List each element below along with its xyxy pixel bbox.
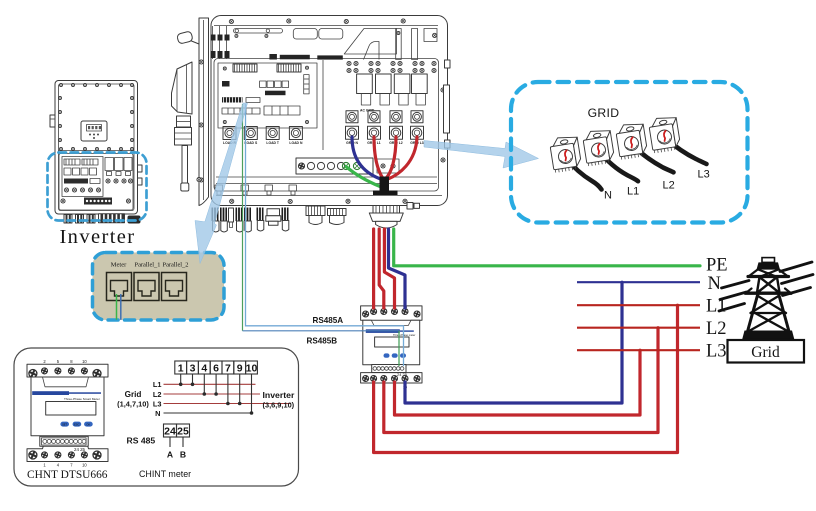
- main unit: LOAD terminal row: [223, 127, 303, 146]
- main unit: top connector strips: [269, 54, 342, 60]
- svg-text:6: 6: [213, 362, 219, 374]
- RS485 pin boxes 24 25: [164, 424, 190, 447]
- svg-text:Inverter: Inverter: [263, 390, 295, 400]
- label Parallel_1: [135, 262, 161, 269]
- tower arm 2: [746, 292, 792, 295]
- svg-text:L1: L1: [627, 186, 639, 198]
- grid cable L1: [599, 152, 638, 182]
- meter detail callout box: [14, 348, 299, 486]
- inverter front view: bottom connector nubs: [64, 214, 141, 224]
- bottom accessories: bracket: [229, 208, 234, 228]
- svg-text:L2: L2: [706, 319, 727, 339]
- power lines left: [719, 281, 749, 312]
- label Meter: [111, 262, 128, 269]
- label N: [708, 274, 721, 294]
- grid cable L2: [633, 146, 674, 173]
- bottom accessories: PV connector pair A: [212, 208, 228, 233]
- inverter front view: bay bottom ribbed strip: [61, 198, 131, 205]
- inverter front view: left hinge tab: [50, 115, 55, 127]
- energy meter DTSU666 (wiring view): [361, 305, 422, 389]
- bottom accessories: PV connector pair B: [236, 208, 252, 233]
- label GRID: [588, 106, 620, 120]
- wire red internal 2: [386, 137, 396, 179]
- tower base: [742, 331, 795, 341]
- label L2 (grid box): [663, 180, 675, 192]
- bottom accessories: main cable gland: [369, 206, 403, 229]
- svg-text:3: 3: [190, 362, 196, 374]
- svg-text:(1,4,7,10): (1,4,7,10): [117, 400, 149, 409]
- inverter side view: wall panel: [199, 18, 209, 206]
- label Parallel_2: [163, 262, 189, 269]
- svg-text:LOAD T: LOAD T: [266, 141, 280, 145]
- bus N: [577, 281, 700, 283]
- label CHINT meter: [139, 469, 191, 479]
- label RS485A: [313, 316, 344, 325]
- svg-text:LOAD S: LOAD S: [244, 141, 258, 145]
- transmission tower: [719, 258, 813, 340]
- label Inverter: [59, 226, 135, 248]
- RS485 wire B overlay across meter: [362, 331, 400, 366]
- grid terminal block L1: [582, 128, 615, 166]
- svg-text:L3: L3: [698, 169, 710, 181]
- GRID callout dashed border: [511, 82, 748, 223]
- label L1: [706, 297, 727, 317]
- inverter side view: wifi antenna: [177, 31, 199, 44]
- label RS 485: [127, 436, 156, 446]
- svg-text:OK: OK: [86, 423, 90, 427]
- svg-text:Meter: Meter: [111, 262, 128, 269]
- label CHNT DTSU666: [27, 469, 108, 481]
- svg-text:24: 24: [164, 425, 176, 437]
- svg-text:CHNT DTSU666: CHNT DTSU666: [27, 469, 108, 481]
- main unit: outer case: [211, 16, 448, 206]
- label L1 (grid box): [627, 186, 639, 198]
- CHNT meter drawing: bottom flange: [27, 440, 108, 467]
- svg-text:PE: PE: [706, 256, 728, 276]
- main unit: top duct: [344, 29, 396, 60]
- svg-text:Grid: Grid: [125, 390, 142, 399]
- main unit: right screw clusters: [347, 61, 436, 72]
- wire red internal 1: [374, 137, 383, 179]
- RJ45 port Parallel_2: [162, 273, 187, 301]
- pin box row 1,3,4,6,7,9,10: [175, 361, 258, 374]
- meter port wire blue: [120, 294, 122, 320]
- svg-text:LOAD N: LOAD N: [289, 141, 303, 145]
- svg-text:RS 485: RS 485: [127, 436, 156, 446]
- power lines right: [780, 262, 813, 296]
- tower mid section: [757, 277, 780, 293]
- meter buttons: [384, 353, 390, 357]
- svg-text:4: 4: [201, 362, 207, 374]
- main unit: top vent bar: [234, 29, 283, 38]
- main unit: top slot plates: [293, 29, 343, 40]
- wire meter bottom 9 to L3 bus: [395, 350, 641, 415]
- label L3 (grid box): [698, 169, 710, 181]
- svg-text:N: N: [155, 409, 160, 418]
- inverter side view: DC switch block: [175, 116, 192, 145]
- grid terminal block L2: [615, 122, 648, 160]
- pin diagram line L3: [164, 374, 291, 405]
- grid terminal block N: [549, 135, 582, 173]
- label N (grid box): [604, 190, 612, 202]
- inverter front view: case: [55, 81, 138, 215]
- label L3: [706, 342, 727, 362]
- inverter front view: screws top row: [60, 84, 134, 87]
- CHNT meter drawing: top flange: [27, 359, 108, 387]
- svg-text:Inverter: Inverter: [59, 226, 135, 248]
- tower arm 1: [748, 275, 789, 278]
- wire PE green (gland to PE bus): [394, 229, 700, 266]
- wire meter bottom 10 to N bus: [405, 282, 622, 403]
- svg-text:10: 10: [82, 359, 87, 364]
- wire green internal: [346, 167, 380, 187]
- meter port wire green: [116, 294, 118, 320]
- meter bottom flange: [361, 373, 422, 383]
- wire blue internal: [352, 137, 381, 179]
- labels A B: [167, 450, 186, 460]
- svg-text:Grid: Grid: [751, 344, 780, 361]
- pin diagram line N: [164, 374, 254, 415]
- svg-text:GRID: GRID: [588, 106, 620, 120]
- main unit: case screws: [197, 19, 445, 204]
- pin diagram line L1: [164, 374, 256, 386]
- svg-text:(3,6,9,10): (3,6,9,10): [263, 400, 295, 409]
- svg-text:RS485B: RS485B: [307, 336, 338, 345]
- bus L2: [577, 327, 700, 329]
- dashed highlight around inverter wiring bay: [48, 153, 147, 221]
- comm ports callout box: [93, 253, 225, 321]
- svg-text:A: A: [167, 450, 173, 460]
- inverter front view: bay left board: [62, 157, 103, 197]
- bottom accessories: PV connector pair C: [257, 208, 289, 232]
- bus L3: [577, 349, 700, 351]
- meter comm terminal strip: [372, 365, 406, 373]
- grid name box: [728, 340, 805, 363]
- bottom accessories: small glands pair: [306, 206, 346, 225]
- meter corner screws bottom: [362, 375, 370, 383]
- bottom accessories: right mini connector: [407, 203, 420, 210]
- svg-text:L2: L2: [153, 390, 162, 399]
- svg-text:N: N: [604, 190, 612, 202]
- svg-text:10: 10: [82, 462, 87, 467]
- main unit: relay blocks: [357, 74, 428, 113]
- svg-text:24 25: 24 25: [74, 447, 86, 452]
- wire L2 red (gland to meter top terminal 4): [379, 229, 384, 308]
- wire meter bottom 3 to L1 bus: [374, 305, 678, 452]
- main unit: grid terminal row 1: [346, 111, 423, 123]
- main unit: top hinge columns: [211, 26, 230, 59]
- callout arrow to comm ports box: [195, 103, 248, 264]
- svg-text:25: 25: [177, 425, 189, 437]
- svg-text:Three-Phase Smart Meter: Three-Phase Smart Meter: [64, 397, 100, 401]
- label Inverter (3,6,9,10): [263, 390, 295, 410]
- svg-text:CHINT meter: CHINT meter: [139, 469, 191, 479]
- svg-text:Three-Phase meter: Three-Phase meter: [393, 333, 415, 337]
- main unit: small panel right of strip: [377, 159, 399, 173]
- inverter side view: mount bracket: [172, 62, 193, 114]
- label RS485B: [307, 336, 338, 345]
- RS485 wire A overlay across meter: [362, 326, 404, 366]
- RS485 thin wire B (green from comm board): [243, 104, 400, 367]
- bottom accessories: MC4 connector: [266, 209, 281, 226]
- svg-text:7: 7: [225, 362, 231, 374]
- main unit: ground terminal strip: [296, 158, 373, 174]
- CHNT meter drawing: comm strip: [40, 436, 88, 451]
- inverter front view: bay right terminal row: [106, 179, 133, 183]
- inverter front view: display panel: [81, 121, 107, 141]
- wire L3 red (gland to meter top terminal 7): [384, 229, 394, 308]
- inverter front view: divider screw row: [59, 148, 135, 151]
- svg-text:L3: L3: [706, 342, 727, 362]
- svg-text:L1: L1: [153, 380, 162, 389]
- main unit: vertical divider: [322, 60, 324, 150]
- meter terminals bottom: [370, 375, 378, 383]
- pin diagram phase labels: [153, 380, 162, 418]
- main unit: grid terminal row 2 (wire sources): [346, 126, 424, 145]
- RJ45 port Meter: [107, 273, 132, 301]
- callout arrow to GRID box: [424, 141, 539, 169]
- meter blue fascia bar: [366, 329, 400, 333]
- inverter front view: right tabs: [138, 165, 143, 185]
- pin diagram line L2: [164, 374, 261, 396]
- svg-text:L2: L2: [663, 180, 675, 192]
- inverter front view: wiring bay frame: [59, 154, 133, 211]
- tower legs and braces: [748, 294, 790, 332]
- grid terminal block L3: [648, 115, 681, 153]
- grid cable N: [566, 158, 602, 190]
- wire red internal 3: [388, 137, 417, 179]
- svg-text:SET: SET: [62, 423, 67, 427]
- meter body: [363, 320, 420, 365]
- RJ45 port Parallel_1: [134, 273, 159, 301]
- meter top flange: [361, 306, 422, 326]
- svg-text:N: N: [708, 274, 721, 294]
- RS485 thin wire A (cyan from comm board): [246, 104, 404, 367]
- svg-text:1: 1: [178, 362, 184, 374]
- wire meter bottom 6 to L2 bus: [384, 328, 658, 433]
- main unit: bay bottom rails: [215, 177, 437, 195]
- tower head: [762, 258, 775, 263]
- meter corner screws top: [362, 310, 370, 318]
- inverter side view: antenna rod: [181, 146, 189, 192]
- meter display: [375, 337, 409, 347]
- meter terminals top: [370, 308, 378, 316]
- main unit: right latch plate: [444, 60, 451, 148]
- wire L1 red (gland to meter top terminal 1): [372, 229, 375, 308]
- svg-text:B: B: [180, 450, 186, 460]
- internal cable gland (black): [380, 177, 390, 192]
- inverter front view: bay left terminal row: [64, 188, 100, 192]
- inverter front view: screws side columns: [59, 97, 134, 142]
- label PE: [706, 256, 728, 276]
- main unit: internal AC wires to gland: [346, 137, 417, 195]
- main unit: left comms PCB: [218, 63, 317, 128]
- svg-text:10: 10: [246, 362, 258, 374]
- svg-text:9: 9: [237, 362, 243, 374]
- wire N blue (gland to meter top terminal 10): [389, 229, 406, 308]
- grid cable L3: [666, 139, 707, 165]
- bus L1: [577, 304, 700, 306]
- inverter front view: bay right breakers: [105, 158, 132, 176]
- svg-text:Parallel_1: Parallel_1: [135, 262, 161, 269]
- CHNT meter drawing: body: [31, 377, 104, 436]
- label L2: [706, 319, 727, 339]
- svg-text:RS485A: RS485A: [313, 316, 344, 325]
- svg-text:Parallel_2: Parallel_2: [163, 262, 189, 269]
- svg-text:L3: L3: [153, 399, 162, 408]
- main unit: top right columns: [396, 29, 437, 60]
- svg-text:ESC: ESC: [74, 423, 79, 427]
- label Grid (1,4,7,10): [117, 390, 149, 409]
